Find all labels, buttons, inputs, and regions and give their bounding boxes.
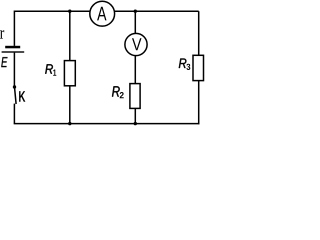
wire left vertical middle (battery to switch)	[13, 53, 15, 87]
label R3	[179, 59, 187, 69]
node dot top R1 junction	[68, 10, 71, 13]
label R1 subscript 1	[53, 70, 56, 76]
label R3 subscript 3	[186, 64, 190, 70]
node dot bottom R2 junction	[134, 122, 137, 125]
wire voltmeter to R2	[134, 56, 136, 84]
wire top horizontal	[14, 10, 198, 12]
node dot bottom R1 junction	[68, 122, 71, 125]
wire R2 branch lower	[134, 108, 136, 123]
wire right vertical lower	[198, 81, 200, 125]
wire bottom horizontal	[14, 123, 200, 125]
label R1	[45, 64, 53, 73]
voltmeter V1 circle	[125, 33, 147, 55]
switch K pivot dot	[13, 85, 16, 88]
voltmeter letter V	[132, 38, 142, 50]
battery positive plate (thin long)	[2, 51, 25, 52]
label R2	[112, 86, 120, 96]
ammeter letter A	[97, 7, 106, 21]
wire R1 branch upper	[69, 11, 71, 60]
battery negative plate (thick short)	[5, 46, 20, 49]
switch K blade	[15, 87, 17, 104]
label E (emf)	[1, 57, 7, 67]
resistor R1 body	[64, 61, 75, 86]
wire left vertical lower (switch to bottom)	[13, 104, 15, 124]
label K (switch)	[19, 91, 25, 102]
wire voltmeter branch upper	[134, 11, 136, 33]
wire left vertical upper (to battery)	[13, 11, 15, 46]
label r (internal resistance)	[0, 30, 4, 38]
wire right vertical upper	[198, 11, 200, 55]
label R2 subscript 2	[120, 92, 124, 98]
wire R1 branch lower	[69, 86, 71, 124]
ammeter A1 circle	[90, 1, 115, 26]
resistor R2 body	[130, 84, 140, 109]
node dot top voltmeter junction	[134, 10, 137, 13]
resistor R3 body	[193, 55, 204, 80]
